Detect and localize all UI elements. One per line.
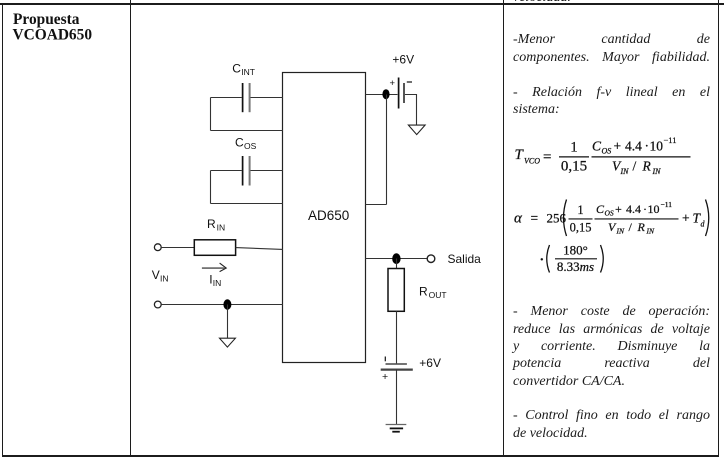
svg-text:INT: INT — [241, 67, 255, 77]
battery B1 minus sign — [407, 81, 412, 83]
wire COS top right — [251, 170, 284, 172]
wire battery to ground stub — [405, 95, 417, 126]
svg-text:IN: IN — [217, 223, 226, 233]
formula alpha line2 — [541, 242, 604, 273]
wire COS bottom — [211, 203, 284, 205]
svg-text:+6V: +6V — [419, 356, 441, 370]
svg-text:R: R — [419, 285, 428, 299]
op-amp U1 AD650 body — [283, 73, 366, 363]
svg-text:C: C — [592, 139, 602, 154]
svg-text:+: + — [390, 78, 396, 89]
svg-text:10: 10 — [648, 202, 660, 216]
svg-text:T: T — [515, 147, 525, 163]
wire back to AD650 — [366, 204, 387, 206]
svg-text:−11: −11 — [661, 200, 673, 209]
resistor R1 RIN body — [194, 240, 235, 256]
svg-text:VCOAD650: VCOAD650 — [13, 27, 93, 44]
capacitor C2 left plate — [242, 156, 244, 186]
svg-text:0,15: 0,15 — [570, 221, 592, 235]
wire CINT left vertical — [210, 98, 212, 131]
ground input triangle — [220, 338, 236, 347]
svg-text:R: R — [207, 217, 216, 231]
wire ROUT to battery B2 — [396, 311, 398, 363]
ground top right triangle — [408, 125, 425, 135]
svg-text:R: R — [637, 220, 646, 234]
resistor R1 RIN label — [207, 217, 225, 233]
svg-text:·: · — [643, 202, 647, 216]
svg-text:d: d — [701, 220, 706, 229]
capacitor C1 CINT label — [232, 62, 255, 78]
svg-text:VCO: VCO — [524, 157, 540, 166]
wire CINT bottom — [211, 130, 284, 132]
svg-text:C: C — [232, 62, 241, 76]
svg-text:AD650: AD650 — [308, 208, 349, 223]
svg-text:=: = — [531, 210, 539, 225]
svg-text:IN: IN — [652, 167, 662, 176]
svg-text:=: = — [543, 149, 551, 165]
svg-text:IN: IN — [160, 274, 169, 284]
junction node input ground — [223, 299, 231, 309]
wire junction to ground — [227, 305, 229, 339]
capacitor C1 left plate — [242, 83, 244, 112]
battery B1 plus plate — [398, 78, 400, 109]
svg-text:+: + — [682, 210, 690, 225]
svg-text:+6V: +6V — [392, 53, 414, 67]
wire node to ROUT — [396, 259, 398, 269]
svg-text:+: + — [382, 371, 388, 383]
svg-text:Propuesta: Propuesta — [13, 11, 80, 28]
wire COS left vertical — [210, 171, 212, 204]
battery B2 top plate — [386, 363, 407, 365]
wire AD650 to battery B1 — [366, 94, 398, 96]
svg-text:OUT: OUT — [429, 290, 447, 300]
svg-text:OS: OS — [244, 141, 257, 151]
svg-text:4.4: 4.4 — [625, 139, 642, 154]
svg-text:+: + — [615, 202, 622, 216]
svg-text:1: 1 — [570, 140, 578, 156]
current arrow IIN — [202, 263, 226, 272]
svg-text:V: V — [152, 268, 160, 282]
svg-text:1: 1 — [577, 203, 583, 217]
resistor R2 ROUT body — [388, 269, 404, 312]
battery B2 bottom plate — [381, 369, 413, 371]
svg-text:10: 10 — [650, 139, 664, 154]
svg-text:−11: −11 — [664, 135, 677, 145]
svg-text:+: + — [614, 139, 622, 154]
svg-text:/: / — [633, 158, 637, 173]
svg-text:C: C — [235, 136, 244, 150]
wire CINT top left — [211, 97, 242, 99]
wire COS top left — [211, 170, 242, 172]
earth ground line3 — [392, 431, 400, 433]
svg-text:Salida: Salida — [448, 252, 482, 266]
label VIN — [152, 268, 169, 284]
formula alpha line1 — [514, 200, 709, 237]
svg-text:·: · — [645, 139, 650, 154]
svg-text:4.4: 4.4 — [626, 202, 641, 216]
terminal Salida open circle — [427, 255, 435, 263]
terminal VIN- open circle — [154, 301, 161, 308]
svg-text:8.33ms: 8.33ms — [557, 259, 594, 274]
formula TVCO — [515, 135, 691, 176]
terminal VIN+ open circle — [154, 244, 161, 251]
svg-text:IN: IN — [646, 227, 655, 236]
capacitor C2 COS label — [235, 136, 257, 152]
svg-text:velocidad.: velocidad. — [513, 0, 571, 5]
svg-text:OS: OS — [602, 147, 612, 156]
wire AD650 to Salida — [366, 258, 428, 260]
wire battery node down — [386, 95, 388, 205]
battery B1 minus plate — [403, 83, 405, 103]
svg-text:180°: 180° — [563, 242, 588, 257]
junction node battery top — [382, 89, 389, 99]
right column text — [513, 32, 710, 48]
wire battery B2 to earth — [396, 370, 398, 425]
junction node output — [392, 253, 400, 264]
capacitor C1 right plate — [249, 83, 251, 112]
svg-text:IN: IN — [616, 227, 625, 236]
svg-text:OS: OS — [605, 209, 614, 218]
battery B2 minus tick — [384, 357, 386, 362]
earth ground line1 — [386, 424, 407, 426]
capacitor C2 right plate — [249, 156, 251, 186]
wire CINT top right — [251, 97, 284, 99]
wire VIN+ to RIN — [161, 247, 194, 249]
wire RIN to AD650 — [236, 248, 283, 250]
table borders — [0, 3, 724, 4]
svg-text:IN: IN — [620, 167, 630, 176]
svg-text:/: / — [629, 220, 633, 234]
wire VIN- to AD650 — [161, 304, 283, 306]
label ROUT — [419, 285, 447, 301]
svg-text:0,15: 0,15 — [561, 159, 587, 175]
svg-text:IN: IN — [213, 278, 222, 288]
svg-text:α: α — [514, 210, 523, 226]
label IIN — [209, 273, 221, 289]
svg-text:R: R — [642, 158, 652, 173]
earth ground line2 — [390, 427, 403, 429]
